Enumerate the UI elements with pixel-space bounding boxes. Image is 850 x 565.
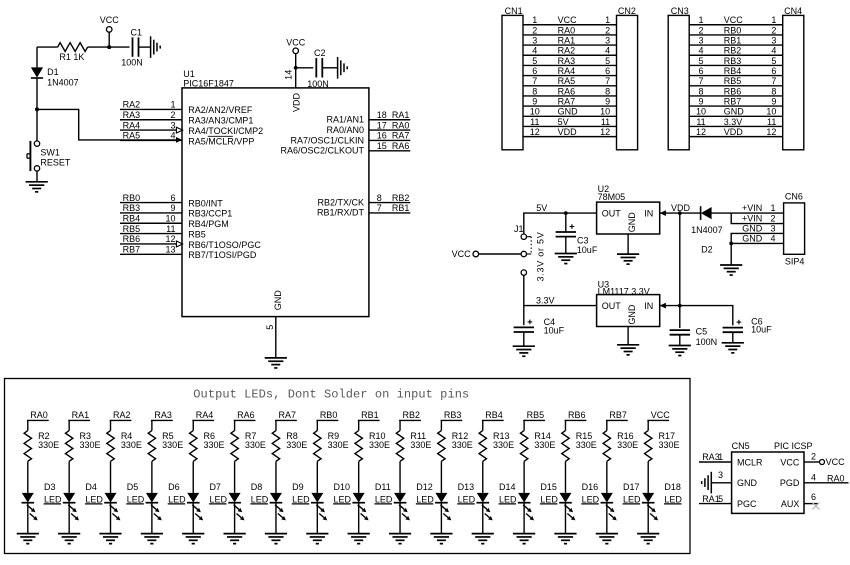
svg-text:AUX: AUX: [781, 499, 800, 509]
svg-text:LED: LED: [127, 494, 145, 504]
svg-text:RA7: RA7: [558, 97, 576, 107]
svg-text:330E: 330E: [617, 440, 638, 450]
connector CN6 SIP4: [784, 192, 805, 267]
svg-text:RB5: RB5: [527, 410, 545, 420]
node net label RB5 (LED column 13): [523, 410, 545, 420]
ground (below C3): [555, 254, 577, 264]
svg-text:11: 11: [166, 224, 175, 234]
LED D4: [63, 482, 104, 533]
wire CN1 pin 8 net RA6: [523, 86, 617, 96]
svg-text:RA4: RA4: [558, 66, 576, 76]
diode D1 1N4007: [31, 47, 79, 109]
svg-text:VCC: VCC: [558, 15, 578, 25]
U1 pin 10 RB4/PGM with net label RB4: [120, 213, 229, 229]
svg-text:RB2/TX/CK: RB2/TX/CK: [317, 197, 364, 207]
svg-text:LED: LED: [664, 494, 682, 504]
svg-text:D16: D16: [582, 482, 599, 492]
svg-text:D6: D6: [168, 482, 180, 492]
ground (LED column 3): [99, 534, 121, 544]
power VCC terminal (U1 VDD): [286, 37, 306, 53]
wire CN6 GND pins: [731, 223, 783, 264]
svg-text:RA4: RA4: [123, 120, 141, 130]
svg-text:6: 6: [811, 492, 816, 502]
ground (LED column 9): [348, 534, 370, 544]
svg-text:RA3/AN3/CMP1: RA3/AN3/CMP1: [188, 116, 253, 126]
node junction D1/SW1/MCLR: [35, 107, 39, 111]
node junction VDD rail: [678, 211, 682, 215]
svg-text:4: 4: [698, 46, 703, 56]
node net label RA1 (LED column 2): [68, 410, 90, 420]
resistor R8 330E: [272, 420, 307, 493]
LED D6: [146, 482, 187, 533]
svg-text:RB7: RB7: [123, 245, 141, 255]
svg-text:RA6: RA6: [237, 410, 255, 420]
svg-text:RB0/INT: RB0/INT: [188, 198, 223, 208]
svg-text:11: 11: [767, 117, 776, 127]
svg-text:D8: D8: [251, 482, 263, 492]
svg-text:IN: IN: [644, 301, 653, 311]
ground (LED column 6): [224, 534, 246, 544]
node net label RA7 (LED column 7): [275, 410, 297, 420]
svg-text:2: 2: [811, 452, 816, 462]
svg-text:VCC: VCC: [100, 15, 120, 25]
ground (LED column 10): [389, 534, 411, 544]
svg-text:LED: LED: [168, 494, 186, 504]
svg-text:6: 6: [605, 66, 610, 76]
svg-text:8: 8: [377, 193, 382, 203]
U1 pin 9 RB3/CCP1 with net label RB3: [120, 203, 232, 219]
connector CN5 PIC ICSP: [732, 441, 813, 513]
resistor R3 330E: [65, 420, 100, 493]
svg-text:RB3/CCP1: RB3/CCP1: [188, 209, 232, 219]
wire CN1 pin 5 net RA3: [523, 56, 617, 66]
node junction 5V/C3: [564, 211, 568, 215]
wire CN3 pin 12 net VDD: [689, 127, 783, 137]
svg-text:LM1117 3.3V: LM1117 3.3V: [598, 286, 650, 296]
wire CN3 pin 7 net RB5: [689, 76, 783, 86]
svg-text:GND: GND: [742, 233, 763, 243]
ground (LED column 15): [596, 534, 618, 544]
U1 pin 18 RA1/AN1 with net label RA1: [326, 110, 410, 125]
svg-text:RB6: RB6: [123, 234, 141, 244]
capacitor C1 100N: [109, 27, 150, 67]
resistor R15 330E: [562, 420, 597, 493]
svg-text:RA3: RA3: [154, 410, 172, 420]
diode D2 1N4007: [680, 206, 731, 255]
svg-text:1N4007: 1N4007: [691, 225, 723, 235]
svg-text:5: 5: [532, 56, 537, 66]
wire to CN6 +VIN pins: [731, 203, 783, 224]
svg-text:RB1: RB1: [724, 35, 742, 45]
svg-text:RA3: RA3: [702, 452, 720, 462]
svg-text:C3: C3: [577, 235, 589, 245]
LED D14: [476, 482, 517, 533]
svg-text:330E: 330E: [576, 440, 597, 450]
svg-text:RA1: RA1: [72, 410, 90, 420]
svg-text:D11: D11: [375, 482, 391, 492]
svg-text:7: 7: [377, 203, 382, 213]
svg-text:3: 3: [770, 223, 775, 233]
svg-text:330E: 330E: [369, 440, 390, 450]
svg-text:OUT: OUT: [602, 209, 622, 219]
svg-text:RA5/MCLR/VPP: RA5/MCLR/VPP: [188, 136, 254, 146]
svg-text:RB5: RB5: [724, 76, 742, 86]
ground (right of C1): [151, 36, 161, 58]
svg-text:RB3: RB3: [724, 56, 742, 66]
svg-text:PIC16F1847: PIC16F1847: [183, 78, 234, 88]
svg-text:10: 10: [696, 107, 706, 117]
svg-text:10: 10: [530, 107, 540, 117]
svg-text:RA4: RA4: [196, 410, 214, 420]
svg-text:RB2: RB2: [724, 46, 742, 56]
svg-text:RA7/OSC1/CLKIN: RA7/OSC1/CLKIN: [290, 135, 364, 145]
svg-text:LED: LED: [85, 494, 103, 504]
resistor R16 330E: [603, 420, 638, 493]
svg-text:3.3V: 3.3V: [536, 295, 555, 305]
wire CN1 pin 3 net RA1: [523, 35, 617, 45]
svg-text:17: 17: [377, 120, 387, 130]
svg-text:330E: 330E: [204, 440, 225, 450]
LED D16: [559, 482, 600, 533]
svg-text:D15: D15: [540, 482, 557, 492]
svg-text:LED: LED: [582, 494, 600, 504]
svg-text:CN3: CN3: [671, 6, 689, 16]
CN5 pin 2 VCC terminal: [804, 452, 845, 467]
svg-text:RB3: RB3: [123, 203, 141, 213]
wire J1 pin3 to U3 OUT (3.3V rail): [524, 275, 597, 305]
wire VCC to J1 common: [479, 253, 521, 255]
svg-text:D13: D13: [458, 482, 475, 492]
svg-text:RB5: RB5: [188, 229, 206, 239]
svg-text:C5: C5: [696, 327, 708, 337]
svg-text:4: 4: [605, 46, 610, 56]
title note: [193, 387, 469, 401]
svg-text:1: 1: [170, 100, 175, 110]
svg-text:330E: 330E: [245, 440, 266, 450]
power VCC terminal (reset circuit): [100, 15, 120, 32]
LED section frame: [5, 379, 691, 554]
LED D11: [352, 482, 393, 533]
svg-text:5: 5: [771, 56, 776, 66]
wire CN3 pin 8 net RB6: [689, 86, 783, 96]
svg-text:2: 2: [170, 110, 175, 120]
svg-text:330E: 330E: [410, 440, 431, 450]
U1 pin 6 RB0/INT with net label RB0: [120, 193, 223, 209]
wire U3 IN to VDD vertical rail: [660, 213, 680, 306]
svg-text:10uF: 10uF: [544, 325, 565, 335]
svg-text:OUT: OUT: [602, 301, 622, 311]
svg-text:VDD: VDD: [558, 127, 578, 137]
svg-text:1: 1: [605, 15, 610, 25]
wire CN3 pin 3 net RB1: [689, 35, 783, 45]
svg-text:3: 3: [771, 35, 776, 45]
svg-text:RB4: RB4: [485, 410, 503, 420]
svg-text:6: 6: [771, 66, 776, 76]
svg-text:2: 2: [605, 25, 610, 35]
capacitor C6 10uF: [680, 306, 772, 343]
svg-text:PIC ICSP: PIC ICSP: [774, 441, 813, 451]
wire VCC to R1/C1 junction: [108, 32, 110, 47]
svg-text:CN1: CN1: [505, 6, 523, 16]
svg-text:18: 18: [377, 110, 387, 120]
node net label RA6 (LED column 6): [234, 410, 256, 420]
svg-text:RA0: RA0: [392, 120, 410, 130]
wire CN3 pin 1 net VCC: [689, 15, 783, 25]
svg-text:RB6/T1OSO/PGC: RB6/T1OSO/PGC: [188, 240, 261, 250]
overline for MCLR on U1 pin 4: [208, 135, 233, 137]
svg-text:LED: LED: [209, 494, 227, 504]
wire CN1 pin 1 net VCC: [523, 15, 617, 25]
svg-text:9: 9: [771, 97, 776, 107]
svg-text:RESET: RESET: [40, 157, 71, 167]
svg-text:6: 6: [698, 66, 703, 76]
U1 pin 4 RA5/MCLR/VPP with net label RA5: [120, 131, 254, 147]
svg-text:RA5: RA5: [123, 131, 141, 141]
ground (below C4): [513, 346, 535, 356]
svg-text:CN5: CN5: [732, 441, 750, 451]
svg-text:RB4: RB4: [724, 66, 742, 76]
ground (U3 GND pin): [617, 327, 639, 355]
svg-text:12: 12: [600, 127, 610, 137]
node net label RA3 (LED column 4): [151, 410, 173, 420]
svg-text:RA1: RA1: [558, 35, 576, 45]
svg-text:1: 1: [718, 452, 723, 462]
wire CN3 pin 10 net GND: [689, 107, 783, 117]
svg-text:RA4/TOCKI/CMP2: RA4/TOCKI/CMP2: [188, 126, 263, 136]
power VCC terminal (supply input): [452, 249, 479, 259]
svg-text:330E: 330E: [38, 440, 59, 450]
capacitor C5 100N: [670, 306, 718, 347]
svg-text:RB0: RB0: [320, 410, 338, 420]
wire CN1 pin 10 net GND: [523, 107, 617, 117]
svg-text:9: 9: [170, 203, 175, 213]
node net label RB3 (LED column 11): [441, 410, 463, 420]
wire J1 pin1 to U2 OUT (5V rail): [524, 203, 597, 234]
svg-text:RA2: RA2: [123, 100, 141, 110]
svg-text:Output LEDs, Dont Solder on in: Output LEDs, Dont Solder on input pins: [193, 387, 469, 401]
svg-text:10uF: 10uF: [751, 325, 772, 335]
svg-text:3.3V: 3.3V: [724, 117, 743, 127]
svg-text:+VIN: +VIN: [742, 203, 762, 213]
svg-text:J1: J1: [514, 224, 524, 234]
regulator U3 LM1117 3.3V: [597, 279, 666, 326]
svg-text:RB5: RB5: [123, 224, 141, 234]
U1 pin 8 RB2/TX/CK with net label RB2: [317, 193, 410, 208]
svg-text:RA0: RA0: [827, 473, 845, 483]
svg-text:8: 8: [698, 86, 703, 96]
svg-text:LED: LED: [251, 494, 269, 504]
svg-text:RB2: RB2: [403, 410, 421, 420]
svg-text:12: 12: [696, 127, 706, 137]
node junction R1/C1/VCC: [107, 45, 111, 49]
wire U2 IN to VDD node: [660, 203, 691, 213]
node net label RA2 (LED column 3): [110, 410, 132, 420]
wire reset node to U1 pin 4: [37, 109, 182, 142]
svg-text:LED: LED: [416, 494, 434, 504]
svg-text:D7: D7: [209, 482, 221, 492]
svg-text:RB7: RB7: [724, 97, 742, 107]
svg-text:4: 4: [811, 472, 816, 482]
LED D12: [394, 482, 435, 533]
svg-text:1: 1: [770, 203, 775, 213]
svg-text:330E: 330E: [286, 440, 307, 450]
svg-text:2: 2: [532, 25, 537, 35]
node net label VCC (LED column 16): [647, 410, 670, 420]
ground (LED column 1): [17, 534, 39, 544]
svg-text:D10: D10: [334, 482, 351, 492]
svg-text:RB1: RB1: [361, 410, 379, 420]
ground (CN5 pin 3): [702, 470, 732, 493]
ground (LED column 16): [637, 534, 659, 544]
ground (LED column 14): [554, 534, 576, 544]
svg-text:VDD: VDD: [291, 92, 301, 112]
svg-text:1: 1: [771, 15, 776, 25]
svg-text:IN: IN: [644, 209, 653, 219]
svg-text:MCLR: MCLR: [737, 457, 763, 467]
ground (below C6): [722, 343, 744, 353]
svg-text:RA7: RA7: [392, 131, 410, 141]
svg-text:LED: LED: [540, 494, 558, 504]
svg-text:10: 10: [766, 107, 776, 117]
svg-text:5: 5: [605, 56, 610, 66]
svg-text:VCC: VCC: [286, 37, 306, 47]
resistor R2 330E: [24, 420, 59, 493]
LED D5: [104, 482, 145, 533]
resistor R7 330E: [231, 420, 266, 493]
svg-text:GND: GND: [273, 290, 283, 311]
svg-text:RA0/AN0: RA0/AN0: [326, 125, 364, 135]
svg-text:2: 2: [771, 25, 776, 35]
op-amp U1 PIC16F1847 body: [182, 69, 369, 317]
svg-text:9: 9: [698, 97, 703, 107]
svg-text:100N: 100N: [121, 57, 143, 67]
svg-text:3: 3: [170, 120, 175, 130]
U1 pin 14 VDD wire: [284, 54, 302, 112]
ground (LED column 5): [182, 534, 204, 544]
resistor R1 1K: [37, 43, 109, 62]
svg-text:10uF: 10uF: [577, 245, 598, 255]
svg-text:D1: D1: [47, 67, 59, 77]
wire CN3 pin 9 net RB7: [689, 97, 783, 107]
svg-text:RB3: RB3: [444, 410, 462, 420]
svg-text:LED: LED: [458, 494, 476, 504]
svg-text:RB0: RB0: [123, 193, 141, 203]
node net label RA0 (LED column 1): [27, 410, 49, 420]
svg-text:PGD: PGD: [780, 478, 800, 488]
svg-text:PGC: PGC: [737, 499, 757, 509]
svg-text:330E: 330E: [79, 440, 100, 450]
U1 pin 11 RB5 with net label RB5: [120, 224, 206, 240]
LED D15: [518, 482, 559, 533]
CN5 pin 6 AUX no-connect: [804, 492, 819, 509]
svg-text:C1: C1: [131, 27, 143, 37]
svg-text:5: 5: [698, 56, 703, 66]
ground (LED column 4): [141, 534, 163, 544]
wire CN1 pin 2 net RA0: [523, 25, 617, 35]
svg-text:7: 7: [698, 76, 703, 86]
resistor R11 330E: [396, 420, 431, 493]
svg-text:5V: 5V: [558, 117, 569, 127]
resistor R9 330E: [314, 420, 349, 493]
ground (LED column 7): [265, 534, 287, 544]
svg-text:LED: LED: [44, 494, 62, 504]
wire CN1 pin 9 net RA7: [523, 97, 617, 107]
svg-text:RA7: RA7: [278, 410, 296, 420]
svg-text:4: 4: [532, 46, 537, 56]
svg-text:12: 12: [766, 127, 776, 137]
U1 pin 5 GND wire: [265, 290, 283, 358]
svg-text:330E: 330E: [121, 440, 142, 450]
svg-text:LED: LED: [375, 494, 393, 504]
svg-text:3: 3: [718, 470, 723, 480]
svg-text:VCC: VCC: [452, 249, 472, 259]
LED D9: [270, 482, 311, 533]
wire CN1 pin 4 net RA2: [523, 46, 617, 56]
wire CN1 pin 12 net VDD: [523, 127, 617, 137]
connector CN3: [668, 6, 689, 150]
svg-text:VCC: VCC: [780, 457, 800, 467]
node junction VDD/C5: [678, 304, 682, 308]
resistor R5 330E: [148, 420, 183, 493]
U1 pin 12 RB6/T1OSO/PGC with net label RB6: [120, 234, 261, 250]
U1 pin 16 RA7/OSC1/CLKIN with net label RA7: [290, 131, 410, 146]
svg-text:D18: D18: [664, 482, 681, 492]
svg-text:330E: 330E: [328, 440, 349, 450]
LED D8: [228, 482, 269, 533]
svg-text:11: 11: [601, 117, 610, 127]
svg-text:RB6: RB6: [568, 410, 586, 420]
LED D7: [187, 482, 228, 533]
ground (LED column 12): [472, 534, 494, 544]
ground (below CN6): [720, 265, 742, 275]
svg-text:D17: D17: [623, 482, 640, 492]
svg-text:VDD: VDD: [724, 127, 744, 137]
svg-text:GND: GND: [742, 223, 763, 233]
svg-text:8: 8: [605, 86, 610, 96]
svg-text:RA1: RA1: [392, 110, 410, 120]
svg-text:8: 8: [532, 86, 537, 96]
U1 pin 7 RB1/RX/DT with net label RB1: [317, 203, 410, 218]
svg-text:6: 6: [532, 66, 537, 76]
svg-text:R1 1K: R1 1K: [59, 52, 84, 62]
svg-text:RB2: RB2: [392, 193, 410, 203]
svg-text:CN4: CN4: [784, 6, 802, 16]
svg-text:15: 15: [377, 141, 387, 151]
svg-text:D9: D9: [292, 482, 304, 492]
capacitor C4 10uF: [514, 306, 565, 346]
svg-text:5: 5: [718, 494, 723, 504]
LED D3: [22, 482, 63, 533]
svg-text:D3: D3: [44, 482, 56, 492]
svg-text:100N: 100N: [696, 337, 718, 347]
ground (LED column 2): [58, 534, 80, 544]
wire CN3 pin 6 net RB4: [689, 66, 783, 76]
svg-text:9: 9: [605, 97, 610, 107]
svg-text:C2: C2: [314, 48, 326, 58]
svg-text:12: 12: [530, 127, 540, 137]
svg-text:330E: 330E: [452, 440, 473, 450]
capacitor C3 10uF: [556, 213, 598, 255]
svg-text:D14: D14: [499, 482, 516, 492]
regulator U2 78M05: [597, 184, 666, 234]
node net label RB0 (LED column 8): [316, 410, 338, 420]
svg-text:7: 7: [605, 76, 610, 86]
svg-text:GND: GND: [737, 478, 758, 488]
U1 pin 17 RA0/AN0 with net label RA0: [326, 120, 410, 135]
switch SW1 RESET: [27, 109, 71, 181]
svg-text:3: 3: [698, 35, 703, 45]
svg-text:11: 11: [530, 117, 539, 127]
